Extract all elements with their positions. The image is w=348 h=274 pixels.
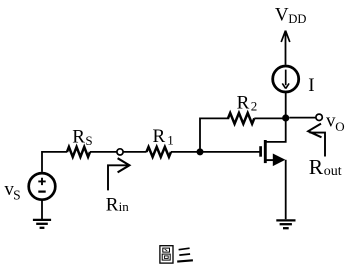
svg-text:R: R [72,127,85,148]
wire: current source down through node D to drain [265,93,285,142]
caption: character 圖 (drawn) [160,246,173,263]
node A (input node, open terminal circle) [117,149,123,155]
svg-text:1: 1 [167,132,174,147]
label I [308,75,314,96]
resistor RS [67,147,90,157]
label Rin [106,194,129,215]
svg-text:O: O [335,119,344,134]
node D (drain/output junction dot) [282,114,289,121]
transistor Q1 channel bar [264,140,267,163]
wire: R1 to gate (through node G) [171,151,260,153]
svg-text:2: 2 [251,99,258,114]
Rin looking-in arrow (bent, pointing right) [108,158,129,190]
ground (left, below vS) [33,220,51,228]
label VDD [275,5,307,27]
svg-text:DD: DD [288,12,306,26]
caption: character 三 (drawn) [177,248,193,261]
wire: node A to R1 [123,151,147,153]
wire: RS to node A [90,151,117,153]
svg-text:S: S [13,188,21,203]
Rout looking-in arrow (bent, pointing left) [308,124,325,157]
VDD supply arrow (pointing up) [281,31,290,65]
label RS [72,127,92,149]
label vS [4,179,20,203]
wire: vS top lead up and right to RS [42,152,67,172]
current source I (circle with downward arrow) [273,66,299,92]
svg-text:S: S [85,133,92,148]
svg-text:I: I [308,75,314,96]
svg-text:R: R [153,126,166,147]
svg-text:R: R [106,194,119,215]
svg-text:out: out [324,164,342,179]
wire: source down to ground [285,160,287,219]
label R1 [153,126,174,148]
label R2 [237,92,258,113]
wire: node D to output terminal [289,117,316,119]
svg-text:R: R [309,155,324,179]
voltage source vS (circle with + and -) [29,173,56,200]
resistor R2 [228,113,254,124]
resistor R1 [147,147,171,157]
wire: node G up and right to R2 [200,118,229,151]
wire: R2 to node D [254,117,285,119]
label Rout [309,155,342,179]
transistor Q1 gate bar [259,146,262,157]
svg-text:in: in [119,199,130,214]
svg-text:V: V [275,5,289,26]
ground (right, below Q1 source) [276,220,295,228]
label vO [326,110,345,133]
node G (junction dot on gate line) [197,148,204,155]
svg-text:R: R [237,92,250,113]
transistor Q1 source lead with arrow [266,154,285,167]
node vO (output open terminal circle) [316,114,322,120]
wire: vS bottom to ground [41,200,43,220]
